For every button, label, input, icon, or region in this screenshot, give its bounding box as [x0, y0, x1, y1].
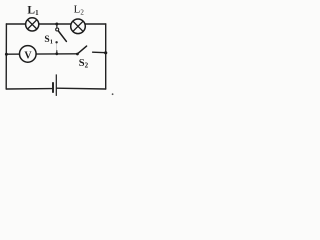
node on middle wire	[55, 52, 58, 55]
speck artifact	[112, 93, 114, 95]
lamp L2	[71, 19, 86, 34]
wire stub to middle wire	[56, 50, 58, 54]
node: junction middle wire / right wire	[104, 51, 107, 54]
switch S1	[55, 23, 66, 56]
faint lead	[56, 44, 58, 51]
node on top wire	[55, 23, 58, 26]
wire right	[105, 24, 107, 89]
wire bottom right (from battery)	[57, 87, 106, 90]
S2 blade	[78, 46, 87, 54]
S2 left contact node	[76, 53, 79, 56]
S1 pivot contact	[56, 28, 59, 31]
svg-text:S2: S2	[79, 58, 89, 70]
battery positive long plate	[55, 74, 57, 96]
node: junction left wire / voltmeter branch	[5, 53, 8, 56]
battery	[53, 74, 56, 96]
svg-text:S1: S1	[44, 35, 53, 45]
wire bottom left (to battery)	[6, 88, 51, 90]
wire stub from top wire	[56, 24, 58, 28]
voltmeter V	[20, 46, 37, 63]
wire top	[6, 23, 105, 25]
wire left	[5, 24, 7, 89]
lamp L1	[26, 18, 39, 31]
S1 blade	[58, 31, 66, 41]
svg-text:L2: L2	[74, 4, 85, 17]
wire middle right (S2 to right wire)	[93, 51, 106, 54]
switch S2	[76, 46, 87, 55]
svg-text:V: V	[24, 50, 32, 61]
S1 lower contact dot	[55, 41, 57, 43]
battery negative short plate	[52, 82, 54, 93]
wire middle left (node to voltmeter to S2)	[6, 53, 77, 55]
svg-text:L1: L1	[27, 5, 39, 17]
